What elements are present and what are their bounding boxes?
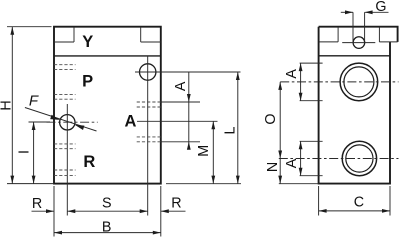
- dim R right label: [171, 195, 181, 211]
- F leader arrow at hole lower-right: [75, 125, 85, 130]
- dim C ext verticals: [319, 186, 390, 216]
- hole circle top-right (Y port): [140, 64, 156, 80]
- bottom extension line left of right view: [279, 183, 319, 185]
- dim C label: [354, 194, 364, 210]
- svg-text:A: A: [125, 112, 137, 130]
- dim O line: [278, 82, 282, 159]
- dim M line: [211, 121, 215, 183]
- hidden thread lines left bore 2: [54, 144, 76, 149]
- label F: [29, 92, 39, 109]
- dim R right line: [161, 209, 186, 213]
- dim A upper label: [284, 69, 300, 79]
- svg-text:A: A: [284, 158, 300, 168]
- vertical centerline through Y hole: [147, 56, 149, 216]
- dim R left label: [32, 196, 42, 212]
- dim C line: [319, 209, 390, 213]
- port circle upper outer: [340, 63, 378, 101]
- svg-text:R: R: [171, 195, 181, 211]
- right view top-left notch: [319, 27, 339, 42]
- dim A ext line upper: [161, 101, 200, 103]
- port label R: [83, 153, 95, 171]
- dim A line: [187, 72, 191, 150]
- horizontal centerline Y hole / ext for A,L dims: [135, 71, 241, 73]
- left view block outline: [54, 27, 161, 184]
- dim N line: [278, 159, 282, 184]
- svg-text:P: P: [82, 72, 93, 90]
- right view top-right notch and tab bottom: [379, 27, 397, 42]
- dim N label: [265, 162, 281, 172]
- port circle upper inner: [344, 67, 374, 97]
- dim H extension bottom: [7, 183, 54, 185]
- hidden thread lines right bore upper: [137, 102, 161, 107]
- dim H extension top: [7, 26, 52, 28]
- left view top strip line: [54, 55, 161, 57]
- hidden thread lines left bore 1: [54, 65, 76, 70]
- svg-text:R: R: [83, 153, 95, 171]
- F leader arrow at hole upper-left: [50, 115, 60, 120]
- dim I extension top: [29, 121, 51, 123]
- dim M label: [196, 145, 212, 157]
- A port centerline / ext for M dim: [137, 120, 218, 122]
- svg-text:S: S: [102, 196, 112, 212]
- bottom-right extension line: [166, 183, 241, 185]
- ext vertical right edge down: [160, 186, 162, 237]
- svg-text:A: A: [173, 81, 189, 91]
- svg-text:C: C: [354, 194, 364, 210]
- dim G line: [341, 10, 389, 14]
- left view top-left notch: [54, 27, 74, 42]
- ext vertical left edge down: [53, 186, 55, 237]
- dim L line: [236, 72, 240, 184]
- dim A upper line: [299, 63, 303, 101]
- pilot hole centerline: [342, 42, 375, 44]
- dim L label: [222, 126, 238, 134]
- svg-text:F: F: [29, 92, 39, 109]
- svg-text:N: N: [265, 162, 281, 172]
- dim B line: [54, 231, 161, 235]
- dim A ext line lower: [161, 141, 200, 143]
- svg-text:B: B: [102, 220, 112, 236]
- dim G label: [375, 0, 386, 15]
- port circle lower inner: [346, 145, 373, 172]
- svg-text:M: M: [196, 145, 212, 157]
- dim S line: [67, 209, 147, 213]
- port label Y: [82, 33, 93, 51]
- horizontal centerline F hole: [47, 121, 98, 123]
- svg-text:R: R: [32, 196, 42, 212]
- dim O label: [263, 113, 279, 124]
- right view top strip line: [319, 55, 390, 57]
- hole circle left (F hole): [60, 115, 75, 130]
- dim A lower line: [299, 141, 303, 175]
- hidden thread lines left bore 2 inner: [54, 170, 76, 175]
- left view top-right notch: [141, 27, 161, 42]
- svg-text:H: H: [0, 100, 14, 110]
- dim A lower label: [284, 158, 300, 168]
- port label A: [125, 112, 137, 130]
- hidden thread lines left bore 1 inner: [54, 95, 76, 100]
- dim A upper ext lines: [300, 63, 323, 101]
- lower port centerline: [279, 158, 399, 160]
- svg-text:I: I: [16, 150, 32, 154]
- right view block outline: [319, 27, 398, 184]
- svg-text:A: A: [284, 69, 300, 79]
- svg-text:O: O: [263, 113, 279, 124]
- vertical centerline through F hole: [66, 104, 68, 216]
- hidden thread lines right bore lower: [137, 137, 161, 142]
- dim H line: [10, 27, 14, 184]
- dim R left line: [32, 209, 55, 213]
- dim B label: [102, 220, 112, 236]
- port circle lower outer: [342, 141, 376, 175]
- dim A lower ext lines: [300, 141, 323, 175]
- upper port centerline: [280, 81, 398, 83]
- port label P: [82, 72, 93, 90]
- dim I label: [16, 150, 32, 154]
- svg-text:L: L: [222, 126, 238, 134]
- dim G ext lines: [353, 12, 365, 41]
- dim H label: [0, 100, 14, 110]
- svg-text:Y: Y: [82, 33, 93, 51]
- F leader line: [25, 108, 97, 132]
- pilot hole small circle: [353, 37, 365, 49]
- dim S label: [102, 196, 112, 212]
- dim A label (left view): [173, 81, 189, 91]
- dim I line: [32, 122, 36, 184]
